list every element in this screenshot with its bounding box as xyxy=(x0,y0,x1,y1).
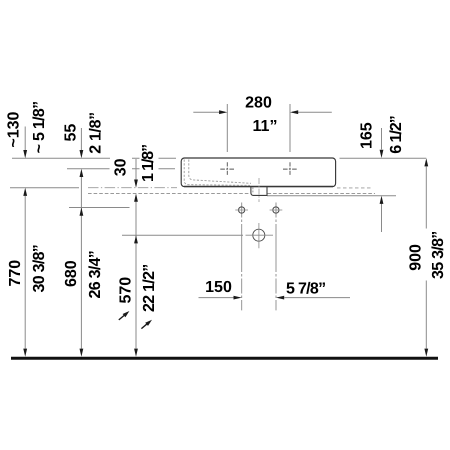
svg-text:~130: ~130 xyxy=(5,111,22,147)
svg-text:30 3/8”: 30 3/8” xyxy=(31,245,48,293)
wire: rim top extension line right (y=158.2) xyxy=(340,157,427,159)
svg-text:900: 900 xyxy=(407,244,424,271)
arrow down at floor for 900 xyxy=(424,349,428,357)
svg-text:1 1/8”: 1 1/8” xyxy=(140,145,157,182)
drain stub hidden inner line xyxy=(252,187,254,194)
wire: basin-bottom extension line left solid (y=187.7) xyxy=(10,187,79,189)
white mask under 35 3/8 label xyxy=(425,229,446,281)
svg-text:280: 280 xyxy=(245,95,272,112)
wire: 570 reference line (y=235.6) xyxy=(122,234,243,236)
wire: dimension line 900 (x=426.3) xyxy=(425,167,427,349)
floor line xyxy=(11,357,438,360)
arrow down tip for 30 top xyxy=(134,180,138,188)
svg-text:165: 165 xyxy=(358,122,375,149)
wire: dimension line ~130/770 (x=25.2) xyxy=(24,127,26,349)
svg-text:6 1/2”: 6 1/2” xyxy=(388,116,405,154)
arrow left tip for 5 7/8 xyxy=(276,296,284,300)
wire: faucet-center extension line left (y=168.8) xyxy=(67,168,175,170)
arrow down tip at rim line for ~130 xyxy=(23,150,27,158)
washbasin inner bowl hidden line (outer) xyxy=(184,160,250,186)
drain pipe circle crosshair horizontal xyxy=(246,234,274,236)
drain pipe circle crosshair vertical xyxy=(258,223,260,248)
arrow down at floor for 770 xyxy=(23,349,27,357)
drain pipe circle xyxy=(253,229,265,241)
arrow down tip at rim line for 55 xyxy=(80,150,84,158)
washbasin body outline xyxy=(181,158,335,187)
arrow up tip for 165 bottom xyxy=(380,196,384,204)
arrow up tip for 900 top xyxy=(424,158,428,166)
svg-text:5 7/8”: 5 7/8” xyxy=(286,280,325,297)
svg-text:~ 5 1/8”: ~ 5 1/8” xyxy=(31,102,48,154)
mounting hole circle left crosshair horizontal xyxy=(235,209,248,211)
svg-text:680: 680 xyxy=(63,260,80,287)
wire: console bottom dashed line right of drain (y=193.5) xyxy=(268,193,376,195)
drain stub outline xyxy=(251,187,267,196)
arrow up tip for 570 top xyxy=(134,235,138,243)
washbasin bottom edge (thicker) xyxy=(184,186,333,188)
leader arrow NE for 570 label xyxy=(123,311,130,317)
arrow down tip for 165 top xyxy=(380,150,384,158)
leader arrow NE for 22 1/2 label xyxy=(145,320,152,326)
mounting hole circle right xyxy=(273,207,279,213)
drain centerline xyxy=(258,178,260,202)
wire: 5 7/8 dimension tail right (y=296.8) xyxy=(284,297,350,299)
svg-text:55: 55 xyxy=(62,124,79,142)
wire: rim top extension line left (y=158) xyxy=(12,157,176,159)
wire: 680 reference line (y=207.5) xyxy=(69,207,130,209)
wire: 165 lower reference solid line (y=195.4) xyxy=(267,195,396,197)
svg-text:570: 570 xyxy=(117,277,134,304)
arrow up tip for 30 bottom xyxy=(134,194,138,202)
faucet hole cross left xyxy=(220,162,234,176)
leader arrow tail for 22 1/2 label xyxy=(141,323,147,328)
mounting hole circle right crosshair horizontal xyxy=(270,209,283,211)
wire: dimension line 30/570 (x=136) xyxy=(135,159,137,349)
svg-text:30: 30 xyxy=(112,158,129,176)
svg-text:2 1/8”: 2 1/8” xyxy=(88,112,105,154)
leader arrow tail for 570 label xyxy=(119,315,125,320)
wire: 280 dimension line tails (y=112.2) xyxy=(193,111,331,113)
arrow up tip for ~130 bottom / 770 top xyxy=(23,188,27,196)
wire: 150 dimension tail left (y=296.8) xyxy=(199,297,235,299)
wire: dimension line 55/680 (x=81.4) xyxy=(80,128,82,349)
svg-text:770: 770 xyxy=(7,260,24,287)
arrow up tip for 55 bottom xyxy=(80,169,84,177)
svg-text:11”: 11” xyxy=(253,118,278,135)
wire: 280 extension line left (x=227.3) xyxy=(226,104,228,152)
arrowheads xyxy=(23,110,428,356)
svg-text:26 3/4”: 26 3/4” xyxy=(87,251,104,299)
arrow left tip for 280 right xyxy=(290,110,298,114)
wire: hole centerline / extension right (x=276.3) xyxy=(275,203,277,311)
wire: console top dash-dot line left segment (y=187.7) xyxy=(88,187,177,189)
wire: dimension line 165 (x=381.5) xyxy=(381,128,383,232)
arrow down at floor for 570 xyxy=(134,349,138,357)
wire: console top dashed line right segment (y=187.9) xyxy=(337,187,372,189)
wire: console bottom dashed line left of drain (y=193.5) xyxy=(88,193,251,195)
svg-text:22 1/2”: 22 1/2” xyxy=(141,264,158,312)
wire: 280 extension line right (x=290) xyxy=(289,104,291,152)
svg-text:35 3/8”: 35 3/8” xyxy=(430,231,447,279)
arrow down at floor for 680 xyxy=(80,349,84,357)
washbasin inner bowl hidden line (inner rim) xyxy=(189,160,251,184)
wire: hole centerline / extension left (x=242) xyxy=(241,203,243,311)
faucet hole cross right xyxy=(283,162,297,176)
arrow up tip for 680 top xyxy=(80,208,84,216)
arrow right tip for 150 xyxy=(234,296,242,300)
arrow right tip for 280 left xyxy=(219,110,227,114)
mounting hole circle left xyxy=(239,207,245,213)
svg-text:150: 150 xyxy=(205,279,232,296)
